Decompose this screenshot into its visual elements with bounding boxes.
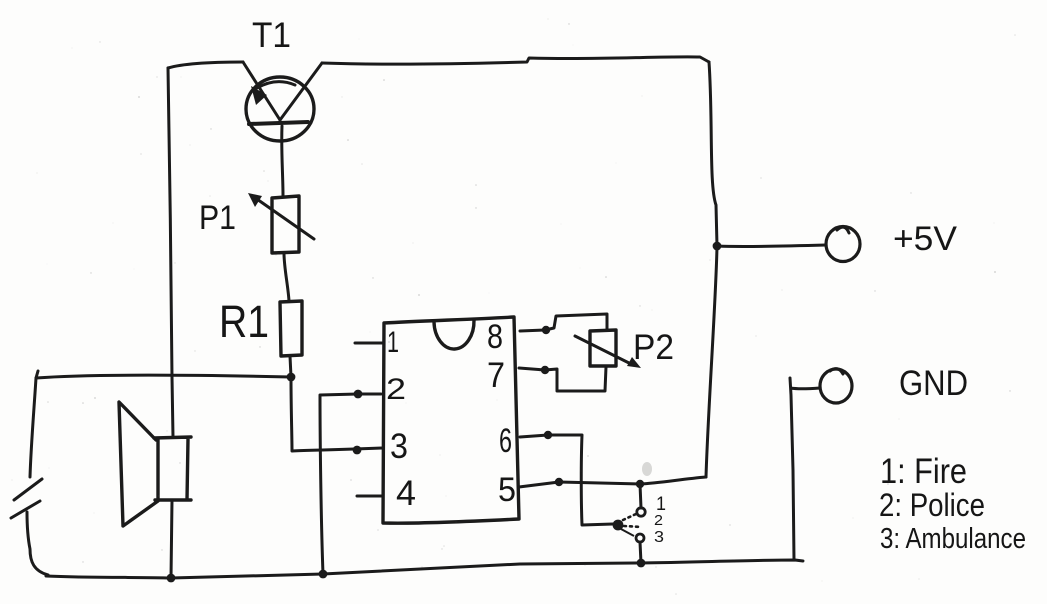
wire pin 8 to P2 top — [520, 314, 607, 331]
svg-text:T1: T1 — [252, 16, 291, 55]
potentiometer P2 — [575, 330, 641, 368]
wire R1 to node — [290, 356, 291, 377]
wire bottom rail — [46, 560, 803, 578]
svg-text:5: 5 — [498, 471, 516, 509]
terminal +5V — [826, 227, 860, 262]
wire tap down to contact 1 — [640, 484, 641, 508]
svg-text:3: 3 — [390, 427, 408, 466]
wire top rail left segment — [168, 62, 243, 68]
faint pencil smudge — [642, 462, 652, 476]
wire pin 5 to +5V rail — [519, 477, 706, 487]
svg-text:+5V: +5V — [893, 220, 957, 258]
junction pin 6 — [544, 431, 552, 439]
svg-text:8: 8 — [487, 318, 503, 356]
svg-text:P1: P1 — [199, 199, 236, 237]
svg-text:GND: GND — [899, 364, 968, 403]
pin 1 stub — [355, 342, 383, 345]
svg-text:P2: P2 — [633, 328, 674, 367]
wire T1 base to P1 — [282, 126, 283, 196]
wire far-left branch horizontal — [36, 375, 291, 378]
junction pin 2 — [354, 390, 363, 399]
svg-text:7: 7 — [487, 356, 505, 395]
wire +5V rail right vertical — [706, 62, 717, 477]
wire P1 to R1 — [284, 253, 289, 301]
wire speaker to bottom rail — [171, 500, 172, 578]
junction switch contact 1 tap — [636, 480, 644, 488]
svg-text:2: Police: 2: Police — [879, 487, 985, 523]
svg-text:2: 2 — [654, 512, 663, 529]
transistor T1 — [243, 62, 322, 141]
wire pin 6 to switch pole — [520, 435, 613, 525]
wire far-left vertical lower — [27, 512, 48, 575]
wire to +5V terminal — [717, 245, 826, 246]
wire pin 7 to P2 bottom — [519, 367, 606, 391]
junction speaker/bottom rail — [167, 574, 176, 583]
resistor R1 — [280, 301, 302, 356]
junction pin 5 — [555, 478, 563, 486]
wire GND terminal to bottom rail — [790, 378, 820, 560]
junction +5V tap — [713, 242, 722, 251]
svg-text:3: 3 — [654, 529, 664, 546]
junction pin 8 — [542, 326, 550, 334]
junction pin 3 — [353, 446, 362, 455]
selector switch S1 — [613, 508, 646, 542]
svg-text:2: 2 — [386, 373, 406, 406]
svg-text:6: 6 — [499, 422, 512, 460]
junction switch/bottom rail — [637, 559, 646, 568]
svg-text:4: 4 — [396, 474, 416, 513]
wire far-left vertical upper — [30, 371, 38, 477]
terminal GND — [820, 369, 852, 403]
junction R1 / pin3 node — [287, 373, 296, 382]
svg-text:R1: R1 — [219, 296, 269, 347]
wire left rail — [168, 68, 173, 437]
svg-text:1: Fire: 1: Fire — [880, 452, 967, 491]
pin 4 stub — [357, 495, 382, 498]
junction pin 7 — [541, 366, 549, 374]
IC U1 body — [383, 317, 519, 523]
wire break slash marks — [11, 479, 42, 518]
wire top rail right segment — [322, 57, 709, 64]
potentiometer P1 — [248, 193, 314, 253]
wire contact 3 to bottom rail — [640, 542, 641, 563]
svg-text:3: Ambulance: 3: Ambulance — [880, 523, 1026, 555]
wire node down to pin 3 — [291, 377, 383, 451]
junction pin2 wire/bottom rail — [319, 570, 328, 579]
speaker LS1 — [119, 402, 191, 526]
wire pin 2 to bottom rail — [320, 394, 381, 574]
